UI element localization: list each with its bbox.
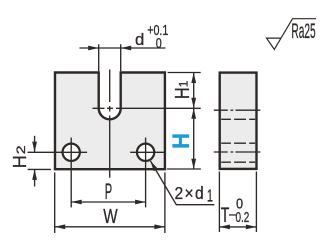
W right extension line — [164, 172, 166, 233]
svg-text:Ra25: Ra25 — [291, 18, 315, 43]
W left arrow — [55, 224, 65, 229]
svg-text:H: H — [168, 133, 195, 149]
hole left — [63, 144, 80, 161]
H2 bottom extension line — [28, 168, 51, 170]
side view hole bottom hidden line — [221, 161, 255, 163]
hole left vertical centerline / P extension — [70, 138, 72, 208]
H2 dimension line bottom part — [34, 170, 36, 186]
T right extension line — [255, 172, 257, 233]
hole right vertical centerline / P extension — [145, 138, 147, 208]
svg-text:W: W — [103, 206, 117, 228]
T dimension line — [219, 226, 256, 228]
svg-text:2: 2 — [14, 145, 28, 154]
H1 bottom arrow — [191, 98, 196, 109]
side view slot centerline (dash-dot) — [214, 109, 260, 111]
side view body — [220, 73, 257, 169]
svg-text:P: P — [105, 179, 112, 204]
svg-text:0.2: 0.2 — [236, 209, 250, 226]
T left extension line — [218, 172, 220, 233]
surface roughness symbol — [267, 19, 317, 50]
svg-text:1: 1 — [177, 80, 191, 87]
H1 top extension line — [168, 72, 201, 74]
slot vertical centerline — [109, 70, 111, 178]
H dimension line — [193, 108, 195, 169]
H2 bottom arrow — [32, 169, 37, 180]
hole right — [137, 144, 154, 161]
side view hole top hidden line — [221, 142, 255, 144]
P left arrow — [71, 200, 82, 205]
svg-text:0: 0 — [156, 36, 162, 52]
W right arrow — [154, 224, 165, 229]
H1 dimension line — [193, 73, 195, 109]
H bottom extension line — [167, 168, 201, 170]
svg-text:H: H — [172, 87, 194, 99]
P right arrow — [135, 200, 146, 205]
dimension d left arrow — [88, 46, 99, 51]
H bottom arrow — [191, 159, 196, 170]
T right arrow — [246, 225, 257, 230]
side view hole centerline (dash-dot) — [214, 151, 260, 153]
slot horizontal centerline / H1 extension line — [93, 107, 201, 109]
side view slot bottom hidden line — [221, 118, 255, 120]
H2 dimension line top part — [34, 136, 36, 152]
svg-text:2×d: 2×d — [175, 183, 206, 203]
leader line for 2xd1 — [151, 161, 215, 205]
W dimension line — [55, 226, 165, 228]
svg-text:1: 1 — [207, 185, 213, 205]
leader arrow at hole — [151, 161, 158, 171]
dimension d extension lines — [99, 44, 121, 71]
svg-text:d: d — [135, 30, 144, 49]
svg-text:H: H — [10, 155, 30, 168]
H2 top arrow — [32, 142, 37, 153]
H top arrow — [191, 108, 196, 119]
holes horizontal centerline / H2 extension line — [28, 151, 165, 153]
dimension d line — [79, 47, 165, 49]
dimension d right arrow — [121, 46, 132, 51]
W left extension line — [54, 172, 56, 233]
H1 top arrow — [191, 73, 196, 84]
front view body outline with slot — [55, 73, 165, 170]
P dimension line — [71, 201, 145, 203]
T left arrow — [219, 225, 230, 230]
